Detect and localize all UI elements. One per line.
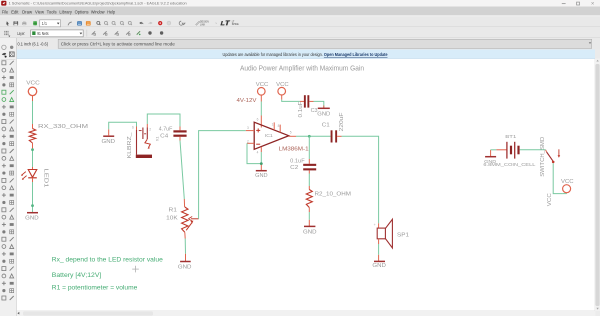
wire VCC to C3 [281,95,283,100]
wire switch to VCC [553,163,563,193]
capacitor C3 0.1uF [300,100,304,102]
potentiometer R1 10K [180,141,184,200]
wire output to C1 [296,135,331,137]
svg-text:C4: C4 [160,134,168,140]
svg-text:1 Schematic - C:\Users\camille: 1 Schematic - C:\Users\camille\Documents… [9,1,187,6]
ground (speaker) [378,255,380,261]
toolbar row 2: layer selector [4,31,5,32]
svg-text:Rx_ depend to the LED resistor: Rx_ depend to the LED resistor value [52,257,163,264]
schematic canvas [17,59,595,312]
EAGLE app icon [1,1,6,6]
svg-text:8: 8 [278,124,280,128]
svg-text:KLBRZ_: KLBRZ_ [127,132,133,158]
op-amp output pin 5 stub [289,135,296,137]
ground (R1 branch) [185,254,187,261]
svg-text:›: › [216,22,217,26]
svg-text:GND: GND [102,139,116,145]
ground (C3) [323,106,325,108]
op-amp pin 4 stub [260,147,262,152]
wire C4 to R1 [179,137,181,141]
svg-text:BT1: BT1 [505,134,516,140]
left tool palette background [0,38,16,316]
svg-text:220uF: 220uF [339,113,345,132]
svg-text:SWITCH_SMD: SWITCH_SMD [540,136,546,176]
op-amp pin 2 stub [247,142,254,144]
svg-text:VCC: VCC [547,193,553,206]
svg-text:View: View [35,9,45,14]
svg-text:GND: GND [255,173,268,179]
svg-text:IC1: IC1 [265,133,274,138]
resistor RX_330_OHM [32,124,34,129]
toolbar row 1 icons [6,21,9,26]
wire speaker to ground [378,239,380,244]
notification bar [17,50,595,59]
svg-text:R2_10_OHM: R2_10_OHM [315,192,352,198]
command line input [58,39,592,48]
svg-text:R1 = potentiometer = volume: R1 = potentiometer = volume [52,285,138,292]
svg-text:LM386M-1: LM386M-1 [279,146,309,152]
svg-text:GND: GND [372,263,386,269]
ground (battery) [490,150,492,157]
svg-text:0.1uF: 0.1uF [298,102,304,118]
ground (LED branch) [27,212,38,214]
microphone X1 KLBRZ [136,127,138,131]
svg-text:Options: Options [75,9,90,14]
window chrome: title bar [0,0,600,7]
junction below RX [31,148,34,151]
op-amp pin 3 stub [246,130,254,132]
window buttons [562,3,566,5]
svg-text:Library: Library [59,9,72,14]
wire VCC to op-amp pin 6 [260,95,262,101]
svg-text:GND: GND [317,112,330,118]
capacitor C2 0.1uF [308,159,310,164]
svg-text:S: S [132,126,134,130]
wire C3 to ground [314,101,324,107]
vertical scrollbar [594,59,596,312]
svg-text:SPICE: SPICE [232,24,239,26]
resistor R2_10_OHM [308,186,310,190]
svg-text:3: 3 [247,126,249,130]
svg-text:10K: 10K [166,215,178,221]
switch SW1 SWITCH_SMD [546,150,547,152]
svg-text:RX_330_OHM: RX_330_OHM [38,124,88,130]
origin cross marker [132,268,139,270]
svg-text:Draw: Draw [22,9,33,14]
junction at output [308,135,311,138]
wire microphone to C4 [146,124,148,128]
svg-text:Edit: Edit [11,9,19,14]
svg-text:Updates are available for mana: Updates are available for managed librar… [223,52,388,57]
svg-text:LINK: LINK [200,24,206,26]
svg-text:6: 6 [257,118,259,122]
svg-text:1: 1 [272,123,274,127]
wire R2 to ground [308,212,310,220]
wire pin 2 to ground net [247,143,261,163]
svg-text:91 Nets: 91 Nets [37,31,48,36]
R1 wiper arrow [191,218,199,220]
gain pin 1 [273,122,275,130]
wire RX to LED1 [32,149,34,168]
junction above ground (LED branch) [31,204,34,207]
svg-text:4: 4 [257,150,259,154]
gain pin 8 [279,125,281,133]
LED LED1 [32,167,34,170]
svg-text:C2: C2 [290,165,298,171]
svg-text:VCC: VCC [26,81,40,87]
svg-text:0.1uF: 0.1uF [290,159,305,165]
capacitor C1 220uF [331,130,333,142]
battery BT1 6.8MM_COIN_CELL [496,149,506,151]
svg-text:Window: Window [91,9,105,14]
wire output to C2 [308,136,310,159]
svg-text:5: 5 [290,131,292,135]
svg-text:R1: R1 [169,208,178,214]
capacitor C4 4.7uF [179,127,181,131]
svg-text:X1: X1 [154,136,159,142]
svg-text:4V-12V: 4V-12V [237,98,258,104]
window chrome: menu bar [0,7,600,16]
speaker SP1 [378,223,380,228]
svg-text:Tools: Tools [47,9,58,14]
wire R1 to ground [184,239,186,254]
ground (op-amp) [260,165,262,171]
svg-text:Audio Power Amplifier with Max: Audio Power Amplifier with Maximum Gain [240,66,364,73]
svg-text:File: File [2,9,9,14]
op-amp U1 LM386M-1 [254,122,289,149]
svg-text:GND: GND [303,229,317,235]
svg-text:GND: GND [178,264,192,270]
svg-text:Layer:: Layer: [17,31,25,36]
svg-text:1/1: 1/1 [42,21,48,26]
wire ground to microphone [109,122,137,129]
wire battery to switch [520,149,546,151]
svg-text:✕: ✕ [591,1,595,6]
wire pin 4 to ground [260,152,262,164]
svg-text:4.7uF: 4.7uF [159,127,173,133]
wire C2 to R2 [308,174,310,187]
svg-text:Click or press Ctrl+L key to a: Click or press Ctrl+L key to activate co… [61,42,176,47]
wire VCC to RX [32,101,34,124]
svg-text:+: + [374,223,376,227]
ground (R2) [308,220,310,226]
wire R1 wiper to op-amp input [199,131,246,219]
junction at op-amp ground [260,162,263,165]
svg-text:Help: Help [107,9,115,14]
svg-text:Battery [4V;12V]: Battery [4V;12V] [52,272,102,279]
svg-text:GND: GND [25,215,39,221]
wire ground to battery [491,149,497,151]
svg-text:LED1: LED1 [43,169,49,188]
wire LED1 to ground [32,182,34,212]
window chrome: toolbar area [0,16,600,50]
left tool palette icons [2,45,6,49]
svg-text:2: 2 [149,128,151,132]
wire C1 to speaker [337,135,341,137]
horizontal scrollbar [17,310,595,312]
svg-text:6.8MM_COIN_CELL: 6.8MM_COIN_CELL [483,162,535,168]
ground (microphone branch) [103,135,114,137]
svg-text:C1: C1 [322,123,330,129]
svg-text:SP1: SP1 [397,233,409,239]
svg-text:0.1 inch (6.1 -0.6): 0.1 inch (6.1 -0.6) [18,42,49,47]
